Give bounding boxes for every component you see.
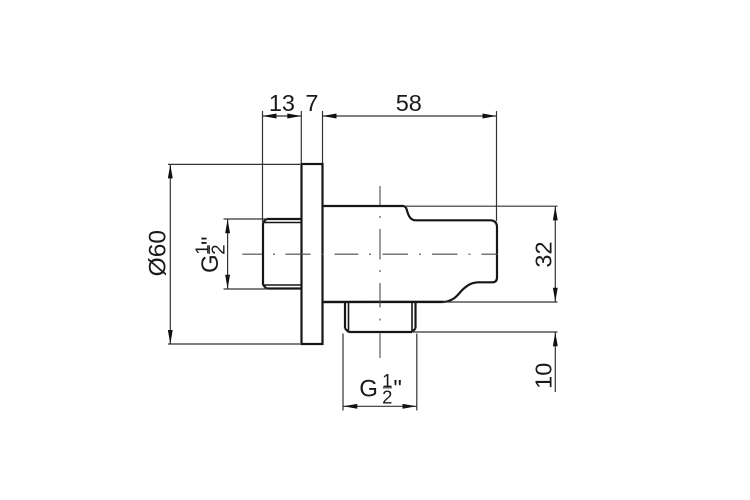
svg-text:13: 13 xyxy=(269,90,295,116)
svg-text:": " xyxy=(197,236,224,245)
G 1/2 dimension (bottom outlet) xyxy=(343,334,417,411)
body bottom edge across outlet xyxy=(323,301,444,303)
bottom outlet thread G1/2 xyxy=(345,302,416,332)
G 1/2 bottom label xyxy=(359,370,402,407)
dim line 58 xyxy=(323,115,497,117)
svg-text:Ø60: Ø60 xyxy=(144,230,171,276)
svg-text:": " xyxy=(393,375,402,402)
10 dimension (right, below) xyxy=(413,332,558,392)
svg-text:G: G xyxy=(359,375,378,402)
svg-text:2: 2 xyxy=(207,244,228,254)
vertical centerline xyxy=(379,186,381,358)
svg-text:7: 7 xyxy=(305,90,318,116)
dimension extension lines, top xyxy=(263,111,497,222)
G1/2 dimension (left connector) xyxy=(224,219,267,289)
main body outline with holder profile xyxy=(323,206,498,302)
arrows top xyxy=(263,114,497,119)
inlet thread G1/2 (left connector) xyxy=(263,219,302,289)
G1/2 rotated label xyxy=(191,236,228,273)
32 dimension (right) xyxy=(405,206,558,302)
horizontal centerline xyxy=(242,253,498,255)
svg-text:G: G xyxy=(197,254,224,273)
svg-text:32: 32 xyxy=(530,241,556,267)
svg-text:58: 58 xyxy=(396,90,422,116)
dim line 13 xyxy=(263,115,302,117)
wall plate (escutcheon, 7mm thick, D60) xyxy=(302,164,323,344)
D60 dimension (left) xyxy=(168,164,300,344)
svg-text:10: 10 xyxy=(531,363,557,389)
svg-text:2: 2 xyxy=(382,386,392,407)
